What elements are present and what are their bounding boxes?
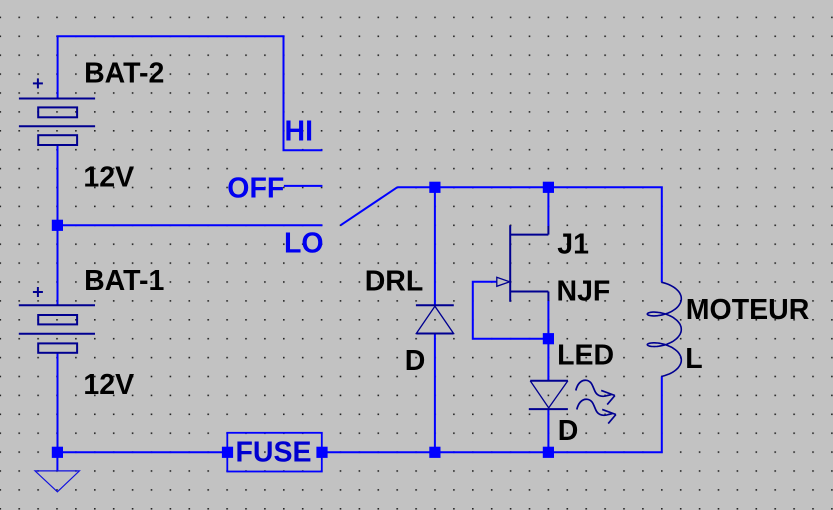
wire: BAT-2 positive to HI contact [58, 36, 323, 150]
svg-text:LO: LO [284, 228, 324, 260]
fuse body box [227, 433, 321, 472]
svg-text:L: L [685, 343, 702, 375]
node DRL bottom / bottom bus [429, 447, 440, 458]
wire: J1 source to LED node [547, 301, 549, 339]
transistor J1 channel bar [509, 225, 511, 301]
svg-text:DRL: DRL [365, 265, 424, 297]
transistor J1 drain lead [510, 226, 548, 235]
wire: ground stub [56, 452, 58, 471]
svg-text:BAT-1: BAT-1 [84, 265, 164, 297]
BAT-2 plus polarity mark [33, 78, 43, 88]
fuse pin 2 [316, 447, 327, 458]
node J1 source / gate / LED anode [543, 333, 554, 344]
wire: BAT-2 negative to BAT-1 positive [57, 145, 59, 305]
node ground / bottom bus [52, 447, 63, 458]
svg-text:D: D [558, 415, 579, 447]
svg-text:12V: 12V [83, 369, 134, 401]
wire: bottom bus fuse to motor [322, 376, 662, 452]
LED emission arrow 2 [577, 399, 616, 423]
battery BAT-2 [19, 99, 95, 146]
wire: LO contact from battery midpoint [57, 224, 322, 226]
svg-text:FUSE: FUSE [236, 437, 312, 469]
wire: DRL cathode to bottom bus [434, 334, 436, 453]
node switch common / DRL top [429, 182, 440, 193]
inductor L coil (MOTEUR) [647, 282, 681, 376]
wire: LED cathode to bottom bus [547, 409, 549, 452]
wire: top bus to motor [397, 187, 662, 282]
svg-text:MOTEUR: MOTEUR [686, 294, 810, 326]
ground symbol [35, 471, 79, 492]
node LED cathode / bottom bus [543, 447, 554, 458]
transistor J1 source lead [510, 292, 548, 302]
svg-text:HI: HI [285, 115, 314, 147]
svg-text:J1: J1 [557, 228, 589, 260]
wire: DRL anode branch [434, 187, 436, 305]
LED D triangle [530, 381, 568, 408]
svg-text:BAT-2: BAT-2 [84, 58, 164, 90]
wire: OFF contact stub [284, 185, 323, 187]
transistor J1 gate arrow [497, 277, 510, 286]
wire: J1 drain from top bus [547, 187, 549, 226]
svg-text:12V: 12V [83, 162, 134, 194]
svg-text:LED: LED [557, 340, 614, 372]
fuse pin 1 [222, 447, 233, 458]
battery BAT-1 [19, 305, 95, 353]
diode DRL triangle [416, 306, 453, 333]
BAT-1 plus polarity mark [33, 287, 43, 297]
LED emission arrow 1 [576, 380, 615, 404]
svg-text:NJF: NJF [557, 276, 611, 308]
wire: bottom bus ground to fuse [57, 451, 227, 453]
wire: BAT-1 negative to ground node [57, 353, 59, 453]
diode DRL cathode bar [416, 304, 454, 306]
node top bus / J1 drain [543, 182, 554, 193]
wire: LED anode [547, 339, 549, 381]
wire: J1 gate loop to source node [473, 282, 549, 339]
node battery midpoint / LO [52, 220, 63, 231]
svg-text:OFF: OFF [227, 172, 284, 204]
LED D cathode bar [529, 408, 568, 410]
svg-text:D: D [405, 345, 426, 377]
wire: switch blade LO to common [341, 187, 398, 225]
